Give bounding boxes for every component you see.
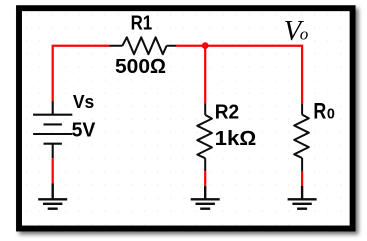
resistor Ro xyxy=(294,103,309,171)
value 500Ω xyxy=(115,56,166,78)
svg-text:o: o xyxy=(300,25,309,44)
wire: battery negative to ground xyxy=(52,158,54,183)
label R2 xyxy=(215,101,239,123)
wire: Ro to ground xyxy=(301,171,303,186)
svg-text:R2: R2 xyxy=(215,101,239,123)
label R1 xyxy=(131,12,153,34)
resistor R2 xyxy=(197,103,212,171)
junction node A (dot) xyxy=(202,42,209,49)
svg-text:Vs: Vs xyxy=(73,92,94,112)
svg-text:R: R xyxy=(313,99,326,124)
label Vs xyxy=(73,92,94,112)
svg-text:0: 0 xyxy=(327,106,335,123)
resistor R1 xyxy=(110,37,177,54)
svg-text:5V: 5V xyxy=(72,120,96,142)
wire: R2 to ground xyxy=(204,171,206,186)
wire: node A down to R2 xyxy=(204,46,206,104)
svg-text:500Ω: 500Ω xyxy=(115,56,166,78)
wire: R1 right lead to node A xyxy=(176,45,205,47)
wire: node A across to output corner and down to Ro xyxy=(205,46,302,104)
label Ro xyxy=(313,99,335,124)
ground (R2) xyxy=(191,186,220,209)
battery Vs (DC source) xyxy=(33,101,72,158)
ground (battery) xyxy=(38,183,67,208)
node Vo output label xyxy=(284,16,309,47)
svg-text:R1: R1 xyxy=(131,12,153,34)
ground (Ro) xyxy=(288,186,317,209)
value 5V xyxy=(72,120,96,142)
svg-text:1kΩ: 1kΩ xyxy=(215,128,257,150)
value 1kΩ xyxy=(215,128,257,150)
wire: battery positive lead up and across to R1 xyxy=(53,46,110,102)
